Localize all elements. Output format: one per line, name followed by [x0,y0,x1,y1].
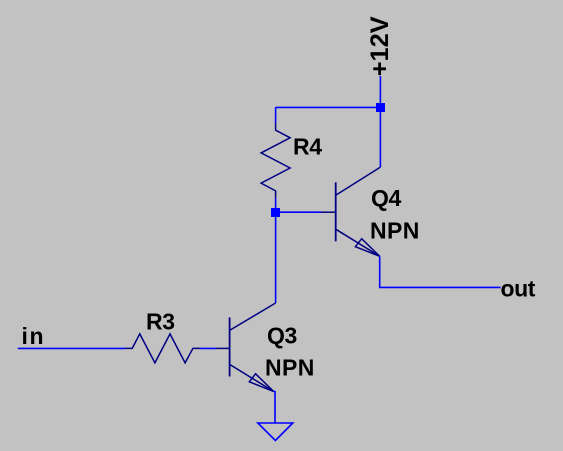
svg-text:Q4: Q4 [371,185,401,211]
wire: R4 bottom lead to left junction [275,198,277,208]
node: top junction [376,103,385,112]
ground [258,423,293,441]
svg-text:R4: R4 [293,133,322,159]
transistor Q3 [216,303,276,391]
svg-text:Q3: Q3 [267,323,297,349]
wire: corner down to R4 top lead [275,107,277,123]
wire: Q4 emitter to out [380,256,501,287]
transistor Q4 [321,167,380,256]
svg-text:out: out [501,276,536,302]
svg-text:in: in [22,323,46,349]
wire: left junction down to Q3 collector [275,217,277,303]
resistor R3 (horizontal) [125,334,200,363]
wire: left junction right to Q4 base [280,211,321,213]
svg-text:R3: R3 [146,309,175,335]
wire: R3 to Q3 base [200,347,216,349]
resistor R4 (vertical) [261,123,290,198]
wire: top horizontal from R4 top to junction [276,106,381,108]
wire: top junction down to Q4 collector [379,112,381,167]
node: left junction [271,208,280,217]
wire: in to R3 [18,347,125,349]
svg-text:NPN: NPN [265,355,315,381]
wire: Q3 emitter down to ground [274,391,275,423]
wire: +12V rail drop to top junction [379,76,381,107]
svg-text:NPN: NPN [370,217,420,243]
svg-text:+12V: +12V [366,16,394,76]
